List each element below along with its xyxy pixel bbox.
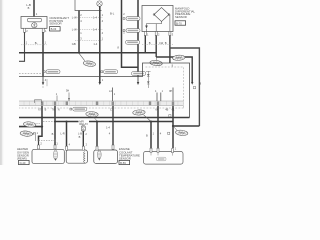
- in-line connector row on crank wires (dashed): [21, 44, 47, 46]
- connector pill row 2: [126, 29, 140, 33]
- link from lower oval right: [33, 133, 36, 141]
- oval connector above E2 right part: [172, 55, 185, 61]
- wire x173 from strip through bus D to bottom right box: [172, 106, 174, 148]
- internal wire from right vertex to pin 3: [169, 15, 171, 32]
- sensor pin 2: [155, 32, 157, 36]
- svg-text:B-59: B-59: [120, 161, 126, 165]
- oval connector below strip (right): [133, 110, 146, 116]
- pill D-03 on crank wire: [46, 70, 60, 74]
- oval connector under E2 left end: [150, 60, 163, 66]
- engine coolant temperature sensor box B-59: [94, 150, 118, 163]
- in-line connector row 3 (dashed): [75, 40, 103, 42]
- oval connector bottom right: [175, 130, 188, 136]
- splice symbol (circle-cross): [97, 1, 102, 6]
- svg-text:(REAR): (REAR): [17, 157, 27, 161]
- small label inside right box: [156, 157, 166, 161]
- sensor pin 2 (left leg): [24, 28, 26, 32]
- in-line connector row 2 (dashed): [75, 28, 103, 30]
- internal component glyphs: [147, 71, 149, 88]
- svg-text:5H: 5H: [66, 90, 69, 93]
- svg-text:B: B: [146, 133, 148, 137]
- connector code box B-59: [119, 160, 130, 164]
- wire x158 from strip to bottom right box: [157, 106, 159, 152]
- svg-text:4B: 4B: [165, 108, 168, 111]
- svg-text:B-70: B-70: [176, 21, 182, 25]
- ECM bottom edge (bus A look): [19, 117, 190, 119]
- pin 2 into relay box: [82, 146, 84, 150]
- sensor pickup circle: [32, 23, 37, 28]
- svg-text:B: B: [149, 41, 151, 45]
- wire x42 from strip to bus C corner and on to O2 box: [39, 106, 43, 142]
- junction dot: [78, 52, 80, 54]
- bus B solid right part: [89, 121, 173, 123]
- bus C (ground bus to left): [19, 126, 42, 128]
- svg-text:B-: B-: [35, 41, 38, 45]
- wire pin3 down, T to bus F, into ECM top: [169, 36, 171, 64]
- sensor pin 1: [144, 32, 146, 36]
- svg-text:B: B: [28, 6, 30, 10]
- connector code box B-70: [175, 21, 186, 25]
- bus E (supply bus across page): [19, 52, 156, 54]
- bus B solid left part: [55, 121, 79, 123]
- svg-text:L-W: L-W: [72, 27, 77, 31]
- heated oxygen sensor (rear) box D-40: [32, 149, 64, 163]
- bridge diamond: [154, 8, 169, 22]
- internal wire x112.5: [112, 88, 114, 102]
- svg-text:B: B: [33, 132, 35, 136]
- bottom right component box: [144, 152, 184, 165]
- relay coil squiggle inside relay box: [84, 152, 85, 163]
- wire x151 from bus B to bottom right box: [150, 122, 152, 152]
- svg-text:1-4: 1-4: [93, 42, 97, 46]
- manifold differential pressure sensor box B-70: [142, 6, 173, 32]
- svg-text:B-03: B-03: [51, 27, 57, 31]
- svg-text:GB: GB: [72, 42, 76, 46]
- pins into right box: [150, 148, 152, 152]
- bus E2 from pin2 junction to right, down outside ECM: [156, 57, 192, 82]
- wire from splice down into ECM: [99, 6, 101, 82]
- MFI relay fuse symbol: [81, 126, 85, 132]
- arrow of crank wire entering ECM: [42, 77, 44, 83]
- thermistor element inside coolant box: [97, 150, 101, 159]
- sensor pin 3: [169, 32, 171, 36]
- hash mark left of oval: [168, 132, 170, 134]
- wire into crankshaft sensor top: [33, 0, 35, 17]
- wire x97 from bus B to coolant box: [96, 122, 98, 151]
- internal pin stub x57: [56, 96, 58, 102]
- internal ground path with arrow: [147, 22, 162, 26]
- hook over strip near crank wire: [35, 100, 42, 103]
- hash mark above ECM bottom right: [169, 115, 171, 117]
- svg-text:SENSOR: SENSOR: [119, 157, 131, 161]
- wire x113 from strip to coolant box: [112, 106, 114, 146]
- svg-text:8H: 8H: [169, 90, 172, 93]
- internal stub A: [156, 93, 158, 102]
- pin 1 into O2 box: [54, 145, 56, 149]
- scan left edge shading: [0, 0, 2, 165]
- oval connector on wire42 upper: [23, 121, 36, 127]
- svg-text:1-4: 1-4: [106, 126, 110, 130]
- connector code box D-40: [19, 160, 30, 164]
- junction dot at ECM bottom: [41, 116, 43, 118]
- small mark right of arrow: [46, 79, 48, 86]
- diagonal to oval: [79, 53, 85, 61]
- stub from jog to O2 pin: [38, 141, 40, 145]
- link from oval to wire: [36, 123, 40, 125]
- svg-text:L-R: L-R: [60, 132, 64, 136]
- svg-text:N: N: [58, 108, 60, 111]
- svg-text:SENSOR: SENSOR: [49, 22, 61, 26]
- tick near wire192 arrow: [193, 86, 195, 88]
- dashed shield line above ECM: [19, 72, 42, 74]
- wire at x=121.5 from top, turns right: [122, 0, 139, 67]
- darker cells at wire positions: [41, 102, 174, 106]
- oval connector under bus E junction: [83, 60, 96, 67]
- arrowhead into ECM: [99, 82, 102, 85]
- diagonal from right oval to bus B: [144, 115, 151, 122]
- in-line connector row on MAP wires (dashed): [142, 44, 173, 46]
- pin into coolant box left: [96, 146, 98, 150]
- svg-text:B-L: B-L: [110, 11, 115, 15]
- heater element inside O2 box: [54, 150, 58, 160]
- wire from sensor pin 2 down: [19, 32, 25, 61]
- svg-text:LW: LW: [159, 41, 163, 45]
- internal stub B: [160, 93, 162, 102]
- bus B (lower bus) dashed lead-in: [43, 121, 55, 123]
- connector pill on wire 138: [126, 40, 140, 44]
- pill D-03 on splice wire: [104, 70, 118, 74]
- pill B-03 on wire 138: [132, 72, 146, 76]
- arrowhead into ECM: [137, 82, 140, 85]
- ECM inner dashed box: [19, 67, 184, 108]
- dashed pin link on O2 sensor: [39, 140, 56, 142]
- crankshaft position sensor box B-103: [21, 17, 47, 29]
- wire pin2 down: [155, 36, 157, 58]
- MFI relay box: [66, 150, 87, 163]
- pin 2 into O2 box: [38, 145, 40, 149]
- diagonal from junction to oval: [155, 57, 158, 60]
- diagonal from oval to bus B: [93, 117, 97, 121]
- svg-text:B: B: [165, 41, 167, 45]
- bus F: pin3 wire runs right and down page right side: [170, 48, 200, 126]
- wire pin1 down to bus E: [144, 36, 146, 53]
- ECM outer box (top edge stepped, right edge, bottom edge): [19, 63, 190, 118]
- pill B-03 below strip left: [73, 107, 87, 111]
- connector code box B-103: [50, 27, 61, 31]
- internal pin stub x69 with label 5H: [68, 93, 70, 102]
- inner detail marks in right box: [151, 152, 173, 155]
- wire from top box down to bus E: [78, 11, 80, 53]
- pin into coolant box right: [112, 145, 114, 149]
- junction dot at bus C: [41, 126, 43, 128]
- sensor pin 1 (right leg): [42, 28, 44, 32]
- wire from relay down to relay box: [82, 131, 84, 146]
- svg-text:C: C: [110, 108, 112, 111]
- pin 4 into relay box: [66, 146, 68, 150]
- wire at x=138 from top down through connector to ECM: [137, 0, 139, 77]
- wire x55 strip to O2 box: [54, 106, 56, 145]
- diagonal from bus D junction to oval: [174, 127, 177, 131]
- svg-text:B: B: [52, 132, 54, 136]
- svg-text:B: B: [79, 135, 81, 139]
- svg-text:L-W: L-W: [72, 15, 77, 19]
- clipped component box at top edge: [75, 0, 102, 11]
- wire x66.5 from bus B to O2 box: [66, 122, 68, 147]
- in-line connector row 1 (dashed): [75, 16, 103, 18]
- internal wire to pin 2: [155, 24, 157, 32]
- svg-text:SENSOR: SENSOR: [175, 15, 187, 19]
- oval connector below strip (left): [86, 111, 99, 117]
- connector strip across ECM: [19, 101, 184, 106]
- internal wire x173 upper: [172, 88, 174, 102]
- wire from sensor pin 1 down (to ECM): [42, 32, 44, 76]
- connector pill row 1: [126, 17, 140, 21]
- sensor slot: [28, 18, 42, 22]
- arrowhead on wire 192: [191, 82, 193, 85]
- svg-text:D-40: D-40: [20, 161, 26, 165]
- bus D to page right: [173, 125, 199, 127]
- oval connector lower left: [20, 130, 33, 136]
